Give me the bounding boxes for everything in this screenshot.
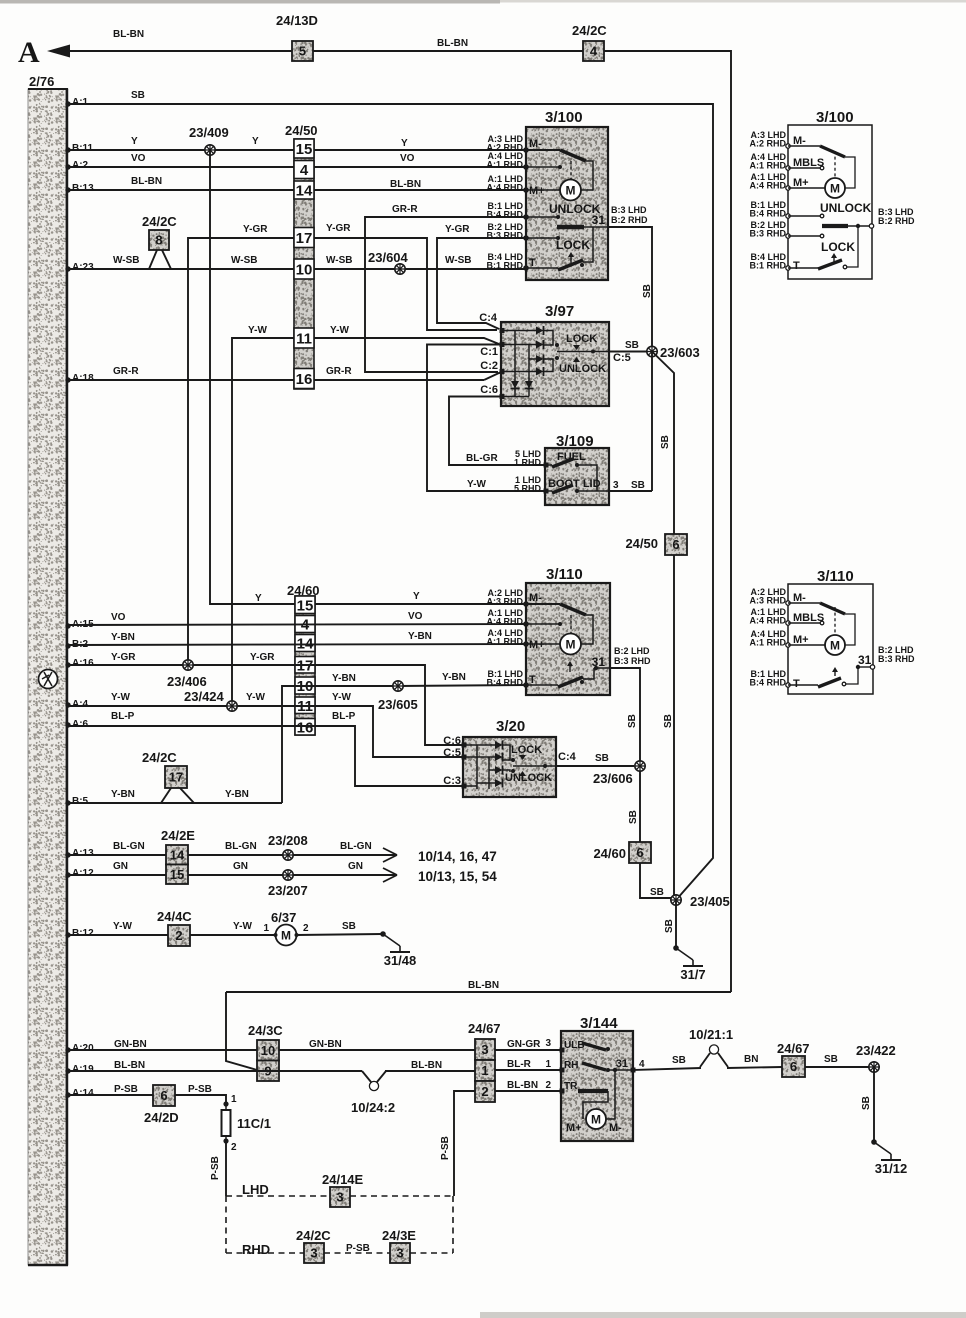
wire SB from 2/76 A:1 along top right side down to splice 23/405 xyxy=(65,101,70,106)
svg-text:SB: SB xyxy=(595,753,609,764)
svg-text:2: 2 xyxy=(481,1084,488,1099)
wire SB from 23/603 diagonal down to 24/50 pin 6 and splice 23/405 xyxy=(652,352,674,901)
svg-text:M+: M+ xyxy=(529,185,545,197)
connector 24/60 pin 16 xyxy=(295,719,315,736)
3/20 diode 3 xyxy=(495,766,503,774)
svg-text:B:5: B:5 xyxy=(72,796,89,807)
svg-text:GR-R: GR-R xyxy=(326,366,352,377)
svg-text:BL-P: BL-P xyxy=(332,711,356,722)
fork wires from 24/2C pin 17 to Y-BN wire xyxy=(161,788,171,803)
wire Y-W from 2/76 A:4 through splice 23/424, 24/60 pin 11 to 3/20 C:5 xyxy=(65,702,70,707)
svg-text:VO: VO xyxy=(408,611,423,622)
svg-text:24/67: 24/67 xyxy=(468,1021,501,1036)
svg-text:A:18: A:18 xyxy=(72,373,94,384)
svg-text:23/422: 23/422 xyxy=(856,1043,896,1058)
svg-text:SB: SB xyxy=(628,810,639,824)
3/144 pin 31/4 output xyxy=(631,1068,636,1073)
svg-text:14: 14 xyxy=(170,847,185,862)
svg-text:A:3 RHD: A:3 RHD xyxy=(749,596,786,606)
svg-text:A:4 RHD: A:4 RHD xyxy=(749,616,786,626)
svg-text:P-SB: P-SB xyxy=(210,1156,221,1180)
svg-text:A:19: A:19 xyxy=(72,1064,94,1075)
svg-text:LHD: LHD xyxy=(242,1182,269,1197)
3/97 diode 6 (down) xyxy=(525,381,533,389)
svg-text:23/605: 23/605 xyxy=(378,697,418,712)
svg-text:C:2: C:2 xyxy=(480,360,498,372)
svg-text:2: 2 xyxy=(303,923,309,934)
svg-text:15: 15 xyxy=(297,597,314,614)
in-line connector 10/24:2 xyxy=(362,1071,371,1082)
svg-text:Y-W: Y-W xyxy=(246,692,265,703)
svg-text:2/76: 2/76 xyxy=(29,74,54,89)
wire W-SB from 2/76 A:23 through 24/50 pin 10 and splice 23/604 to 3/100 T xyxy=(65,266,70,271)
svg-text:24/2C: 24/2C xyxy=(296,1228,331,1243)
svg-text:C:5: C:5 xyxy=(613,352,631,364)
svg-text:SB: SB xyxy=(660,435,671,449)
scan artifact top edge xyxy=(0,0,500,4)
svg-text:24/60: 24/60 xyxy=(593,846,626,861)
arrow to 10/13, 15, 54 xyxy=(383,868,397,882)
svg-text:Y-BN: Y-BN xyxy=(111,632,135,643)
svg-text:BL-GN: BL-GN xyxy=(113,841,145,852)
wire BL-BN from 24/67 pin 2 to 3/144 TR xyxy=(495,1090,561,1092)
connector 24/50 pin 4 xyxy=(294,161,314,179)
connector 24/60 pin 14 xyxy=(295,635,315,652)
wire Y-BN from 2/76 B:5 to 24/60 pin 10 riser xyxy=(65,800,70,805)
wire SB from 3/109 pin 3 to vertical xyxy=(609,490,652,492)
svg-text:10/13, 15, 54: 10/13, 15, 54 xyxy=(418,869,497,884)
svg-text:31: 31 xyxy=(592,655,606,669)
svg-text:6: 6 xyxy=(790,1059,797,1074)
3/144 TR switch bar and motor xyxy=(560,1089,565,1094)
svg-text:3/20: 3/20 xyxy=(496,718,525,735)
svg-text:SB: SB xyxy=(663,714,674,728)
connector 24/50 pin 15 xyxy=(294,139,314,158)
svg-text:3/110: 3/110 xyxy=(546,566,583,583)
svg-text:1: 1 xyxy=(545,1059,551,1070)
connector 24/2E pin 14 xyxy=(166,845,188,865)
svg-text:A:1: A:1 xyxy=(72,97,89,108)
svg-text:VO: VO xyxy=(131,153,146,164)
svg-text:B:4 RHD: B:4 RHD xyxy=(749,678,786,688)
svg-text:SB: SB xyxy=(824,1054,838,1065)
3/97 diode outputs to switch xyxy=(544,331,553,346)
svg-text:SB: SB xyxy=(131,90,145,101)
wire Y-W from 3/97 C:1 to 3/109 pin 1 LHD xyxy=(427,345,545,492)
svg-text:Y: Y xyxy=(401,138,408,149)
wire Y-GR from 3/100 B:2 down to 3/97 C:4 xyxy=(437,238,526,329)
svg-text:B:11: B:11 xyxy=(72,143,94,154)
svg-text:23/604: 23/604 xyxy=(368,250,409,265)
connector 24/50 pin 11 xyxy=(294,328,314,348)
connector 24/50 pin 10 xyxy=(294,259,314,279)
fork wires from 24/2C pin 8 to W-SB wire xyxy=(149,250,157,269)
svg-text:M-: M- xyxy=(529,138,542,150)
svg-text:31: 31 xyxy=(858,653,872,667)
connector 24/50 pin 16 xyxy=(294,369,314,389)
wire Y-GR from 2/76 A:16 through splice 23/406, 24/60 pin 17 to 3/20 C:6 xyxy=(65,662,70,667)
wire SB from 23/422 to ground 31/12 xyxy=(873,1067,875,1142)
svg-text:M+: M+ xyxy=(529,639,545,651)
3/20 diode 2 xyxy=(495,753,503,761)
wire Y-BN from 2/76 B:2 through 24/60 pin 14 to 3/110 M+ xyxy=(65,643,70,648)
svg-text:SB: SB xyxy=(642,284,653,298)
svg-text:M+: M+ xyxy=(566,1122,582,1134)
connector 24/50 pin 17 xyxy=(294,228,314,248)
svg-text:SB: SB xyxy=(342,921,356,932)
svg-text:4: 4 xyxy=(300,162,309,179)
svg-text:2: 2 xyxy=(231,1142,237,1153)
svg-text:16: 16 xyxy=(297,719,314,736)
svg-text:Y-BN: Y-BN xyxy=(111,789,135,800)
svg-text:Y-BN: Y-BN xyxy=(332,673,356,684)
svg-text:3: 3 xyxy=(396,1246,403,1261)
svg-text:4: 4 xyxy=(590,44,598,59)
svg-text:GN: GN xyxy=(348,861,363,872)
svg-text:P-SB: P-SB xyxy=(188,1084,212,1095)
svg-text:24/50: 24/50 xyxy=(285,123,318,138)
svg-text:P-SB: P-SB xyxy=(114,1084,138,1095)
svg-text:3: 3 xyxy=(336,1190,343,1205)
svg-text:Y-W: Y-W xyxy=(332,692,351,703)
svg-text:RHD: RHD xyxy=(242,1242,270,1257)
svg-text:3/110: 3/110 xyxy=(817,568,854,585)
3/144 ULB switch xyxy=(560,1048,565,1053)
svg-text:24/2D: 24/2D xyxy=(144,1110,179,1125)
wire VO from 2/76 A:15 through 24/60 pin 4 to 3/110 MBLS xyxy=(65,623,70,628)
svg-text:3: 3 xyxy=(481,1042,488,1057)
svg-text:5: 5 xyxy=(299,44,306,59)
svg-text:23/603: 23/603 xyxy=(660,345,700,360)
svg-text:SB: SB xyxy=(627,714,638,728)
svg-text:LOCK: LOCK xyxy=(556,238,590,252)
wire SB from 24/67 pin 6 to splice 23/422 xyxy=(805,1066,874,1068)
svg-text:BL-BN: BL-BN xyxy=(114,1060,145,1071)
svg-text:B:12: B:12 xyxy=(72,928,94,939)
svg-text:GN-BN: GN-BN xyxy=(114,1039,147,1050)
svg-text:Y-W: Y-W xyxy=(233,921,252,932)
svg-text:B:2 RHD: B:2 RHD xyxy=(878,216,915,226)
wire Y-W from 2/76 B:12 through 24/4C pin 2 to motor 6/37 xyxy=(65,932,70,937)
svg-text:C:6: C:6 xyxy=(480,384,498,396)
wire SB from 3/100 pin 31 down to splice 23/603 xyxy=(608,227,652,351)
svg-text:SB: SB xyxy=(861,1096,872,1110)
svg-text:LOCK: LOCK xyxy=(511,744,542,756)
svg-text:3/100: 3/100 xyxy=(816,109,854,126)
svg-text:10: 10 xyxy=(296,262,313,279)
3/144 RH switch xyxy=(560,1068,565,1073)
svg-text:24/2C: 24/2C xyxy=(142,214,177,229)
3/20 diode 1 xyxy=(495,741,503,749)
svg-text:M: M xyxy=(830,639,840,653)
ground 31/48 xyxy=(380,931,386,937)
svg-text:M-: M- xyxy=(793,592,806,604)
wire GR-R from 2/76 A:18 through 24/50 pin 16 to 3/97 C:2 xyxy=(65,377,70,382)
svg-text:M: M xyxy=(591,1113,601,1127)
svg-text:Y-GR: Y-GR xyxy=(445,224,470,235)
svg-text:23/606: 23/606 xyxy=(593,771,633,786)
wire SB from 23/405 to ground 31/7 xyxy=(675,900,677,948)
riser from BL-BN run down to 24/3C pin 9 xyxy=(226,992,257,1070)
svg-text:Y-W: Y-W xyxy=(111,692,130,703)
svg-text:SB: SB xyxy=(631,480,645,491)
svg-text:T: T xyxy=(529,674,536,686)
svg-text:15: 15 xyxy=(296,141,313,158)
wire SB from 24/60 pin 6 to splice 23/405 xyxy=(640,863,671,898)
connector 24/60 pin 15 xyxy=(295,596,315,614)
svg-text:M: M xyxy=(281,929,291,943)
svg-text:3: 3 xyxy=(545,1038,551,1049)
svg-text:P-SB: P-SB xyxy=(346,1243,370,1254)
wire SB from 3/97 C:5 to splice 23/603 xyxy=(609,351,647,353)
svg-text:W-SB: W-SB xyxy=(231,255,257,266)
svg-text:15: 15 xyxy=(170,867,184,882)
svg-text:1: 1 xyxy=(263,923,269,934)
svg-text:M: M xyxy=(830,182,840,196)
svg-text:14: 14 xyxy=(296,183,313,200)
3/100 pin 31 row with switch bar xyxy=(557,225,584,230)
wire VO from 2/76 A:2 through 24/50 pin 4 to 3/100 MBLS pin xyxy=(65,164,70,169)
wire Y-W from splice 23/424 up through 24/50 pin 11 to 3/97 C:1 xyxy=(232,338,499,707)
svg-text:LOCK: LOCK xyxy=(821,240,855,254)
svg-text:W-SB: W-SB xyxy=(326,255,352,266)
connector 24/50 pin 14 xyxy=(294,181,314,199)
svg-text:8: 8 xyxy=(155,233,162,248)
svg-text:Y: Y xyxy=(255,593,262,604)
svg-text:31: 31 xyxy=(616,1058,628,1070)
3/97 internal diode bus xyxy=(514,331,516,397)
svg-text:BN: BN xyxy=(744,1054,758,1065)
svg-text:23/406: 23/406 xyxy=(167,674,207,689)
ground 31/12 xyxy=(871,1139,877,1145)
3/97 diode 4 xyxy=(536,368,544,376)
svg-text:A:4: A:4 xyxy=(72,699,89,710)
svg-text:BL-BN: BL-BN xyxy=(468,980,499,991)
connector 24/60 pin 17 xyxy=(295,657,315,674)
svg-text:4: 4 xyxy=(639,1059,645,1070)
svg-text:A:14: A:14 xyxy=(72,1088,94,1099)
ground 31/7 xyxy=(673,945,679,951)
svg-text:2: 2 xyxy=(545,1080,551,1091)
wire BN from 10/21:1 to 24/67 pin 6 xyxy=(727,1067,782,1068)
svg-text:24/2C: 24/2C xyxy=(142,750,177,765)
svg-text:GN: GN xyxy=(233,861,248,872)
svg-text:M-: M- xyxy=(793,135,806,147)
svg-text:LOCK: LOCK xyxy=(566,333,597,345)
svg-text:M-: M- xyxy=(529,592,542,604)
svg-text:M: M xyxy=(566,184,576,198)
svg-text:BL-R: BL-R xyxy=(507,1059,532,1070)
3/20 internal diodes xyxy=(476,745,478,789)
wire Y-GR from splice 23/406 up through 24/50 pin 17 to 3/97 C:4 xyxy=(188,238,497,664)
svg-text:ULB: ULB xyxy=(564,1040,585,1051)
svg-text:M-: M- xyxy=(609,1122,622,1134)
svg-text:W-SB: W-SB xyxy=(113,255,139,266)
svg-text:BL-GN: BL-GN xyxy=(225,841,257,852)
svg-text:23/405: 23/405 xyxy=(690,894,730,909)
svg-text:Y: Y xyxy=(413,591,420,602)
svg-text:B:3 RHD: B:3 RHD xyxy=(486,231,523,241)
wire SB from 23/603 down to 3/109 pin 3 xyxy=(651,352,653,492)
svg-text:T: T xyxy=(529,257,536,269)
3/109 BOOT LID switch xyxy=(544,489,549,494)
svg-text:24/3C: 24/3C xyxy=(248,1023,283,1038)
wire P-SB from 24/67 pin 2 left side down to LHD line xyxy=(454,1091,475,1196)
svg-text:UNLOCK: UNLOCK xyxy=(820,201,872,215)
3/97 diode 3 xyxy=(536,355,544,363)
svg-text:10/21:1: 10/21:1 xyxy=(689,1027,733,1042)
svg-text:C:4: C:4 xyxy=(479,312,498,324)
svg-text:Y-W: Y-W xyxy=(248,325,267,336)
svg-text:VO: VO xyxy=(111,612,126,623)
svg-text:5 RHD: 5 RHD xyxy=(514,484,542,494)
svg-text:B:1 RHD: B:1 RHD xyxy=(749,261,786,271)
svg-text:VO: VO xyxy=(400,153,415,164)
svg-text:GR-R: GR-R xyxy=(113,366,139,377)
svg-text:SB: SB xyxy=(625,340,639,351)
svg-text:MBLS: MBLS xyxy=(793,612,824,624)
svg-text:B:3 RHD: B:3 RHD xyxy=(749,229,786,239)
svg-text:SB: SB xyxy=(672,1055,686,1066)
wire BL-GN from 2/76 A:13 through 24/2E pin 14 and splice 23/208 to 10/14,16,47 xyxy=(65,852,70,857)
svg-text:SB: SB xyxy=(650,887,664,898)
wire SB from 3/144 pin 4 to in-line connector 10/21:1 xyxy=(633,1068,701,1070)
svg-text:A:12: A:12 xyxy=(72,868,94,879)
svg-text:A:23: A:23 xyxy=(72,262,94,273)
wire GR-R from 3/100 B:1 down to 3/97 C:2 xyxy=(365,217,526,372)
svg-text:Y-GR: Y-GR xyxy=(326,223,351,234)
wire BL-BN from 2/76 A:19 through 24/3C pin 9 and 10/24:2 to 24/67 pin 1 xyxy=(65,1068,70,1073)
svg-text:BL-GR: BL-GR xyxy=(466,453,498,464)
wire SB from 6/37 pin 2 to ground 31/48 xyxy=(297,934,384,935)
svg-text:31/48: 31/48 xyxy=(384,953,417,968)
svg-text:GN: GN xyxy=(113,861,128,872)
connector 24/60 pin 11 xyxy=(295,697,315,714)
svg-text:24/13D: 24/13D xyxy=(276,13,318,28)
wire BL-BN long run from 24/3C riser to right-side riser xyxy=(226,991,731,993)
svg-text:M+: M+ xyxy=(793,177,809,189)
svg-text:RH: RH xyxy=(564,1060,578,1071)
svg-text:Y-GR: Y-GR xyxy=(250,652,275,663)
svg-text:6: 6 xyxy=(672,537,679,552)
wire BL-BN right segment turning down the right side xyxy=(604,51,731,992)
svg-text:SB: SB xyxy=(664,919,675,933)
svg-text:17: 17 xyxy=(296,230,313,247)
svg-text:BL-BN: BL-BN xyxy=(131,176,162,187)
wire BL-BN from 2/76 B:13 through 24/50 pin 14 to 3/100 M+ xyxy=(65,187,70,192)
svg-text:Y-BN: Y-BN xyxy=(225,789,249,800)
wire P-SB from fuse down to LHD dashed line xyxy=(225,1141,227,1196)
svg-text:24/67: 24/67 xyxy=(777,1041,810,1056)
svg-text:A:1 RHD: A:1 RHD xyxy=(486,160,523,170)
svg-text:A:20: A:20 xyxy=(72,1043,94,1054)
fuse 11C/1 xyxy=(223,1101,228,1106)
wire BL-P from 2/76 A:6 through 24/60 pin 16 to 3/20 C:3 xyxy=(65,722,70,727)
wire BL-GR from 3/97 C:6 to 3/109 pin 5 LHD xyxy=(449,397,545,466)
svg-text:3/100: 3/100 xyxy=(545,109,583,126)
svg-text:MBLS: MBLS xyxy=(793,157,824,169)
svg-text:GR-R: GR-R xyxy=(392,204,418,215)
svg-text:Y-BN: Y-BN xyxy=(442,672,466,683)
wire SB from 3/20 C:4 to splice 23/606 xyxy=(556,765,634,767)
svg-text:T: T xyxy=(793,678,800,690)
svg-text:24/14E: 24/14E xyxy=(322,1172,364,1187)
svg-text:GN-BN: GN-BN xyxy=(309,1039,342,1050)
svg-text:A:2 RHD: A:2 RHD xyxy=(749,139,786,149)
svg-text:A:1 RHD: A:1 RHD xyxy=(749,161,786,171)
svg-text:B:3 RHD: B:3 RHD xyxy=(614,656,651,666)
svg-text:Y-W: Y-W xyxy=(113,921,132,932)
svg-text:B:13: B:13 xyxy=(72,183,94,194)
svg-text:6: 6 xyxy=(636,845,643,860)
wire GN-GR from 24/67 pin 3 to 3/144 ULB xyxy=(495,1049,561,1051)
svg-text:10/24:2: 10/24:2 xyxy=(351,1100,395,1115)
svg-text:P-SB: P-SB xyxy=(440,1136,451,1160)
svg-text:1: 1 xyxy=(481,1063,488,1078)
svg-text:B:3 RHD: B:3 RHD xyxy=(878,654,915,664)
svg-text:B:3 LHD: B:3 LHD xyxy=(611,205,647,215)
wire GN from 2/76 A:12 through 24/2E pin 15 and splice 23/207 to 10/13,15,54 xyxy=(65,872,70,877)
svg-text:6: 6 xyxy=(160,1088,167,1103)
svg-text:24/3E: 24/3E xyxy=(382,1228,416,1243)
svg-text:24/50: 24/50 xyxy=(625,536,658,551)
svg-text:24/4C: 24/4C xyxy=(157,909,192,924)
3/20 diode 4 xyxy=(495,779,503,787)
svg-text:Y-GR: Y-GR xyxy=(243,224,268,235)
svg-text:UNLOCK: UNLOCK xyxy=(559,363,606,375)
svg-text:GN-GR: GN-GR xyxy=(507,1039,541,1050)
svg-text:BL-BN: BL-BN xyxy=(113,29,144,40)
wire P-SB from 2/76 A:14 through 24/2D pin 6 to fuse 11C/1 xyxy=(65,1092,70,1097)
svg-text:24/2C: 24/2C xyxy=(572,23,607,38)
svg-text:BL-GN: BL-GN xyxy=(340,841,372,852)
svg-text:3: 3 xyxy=(613,480,619,491)
svg-text:10/14, 16, 47: 10/14, 16, 47 xyxy=(418,849,497,864)
svg-text:23/208: 23/208 xyxy=(268,833,308,848)
svg-text:BL-BN: BL-BN xyxy=(437,38,468,49)
svg-text:C:1: C:1 xyxy=(480,346,498,358)
svg-text:A:16: A:16 xyxy=(72,658,94,669)
svg-text:A:4 RHD: A:4 RHD xyxy=(749,181,786,191)
wire BL-BN from arrow A to connector 24/13D xyxy=(68,50,292,52)
svg-text:23/207: 23/207 xyxy=(268,883,308,898)
svg-text:BOOT LID: BOOT LID xyxy=(548,478,601,490)
svg-text:Y-BN: Y-BN xyxy=(408,631,432,642)
svg-text:Y: Y xyxy=(252,136,259,147)
svg-text:TR: TR xyxy=(564,1081,578,1092)
svg-text:3/97: 3/97 xyxy=(545,303,574,320)
svg-text:T: T xyxy=(793,260,800,272)
wire Y from 2/76 B:11 through splice 23/409 and 24/50 pin 15 to 3/100 M- xyxy=(65,147,70,152)
svg-text:11C/1: 11C/1 xyxy=(237,1116,271,1131)
svg-text:B:1 RHD: B:1 RHD xyxy=(486,261,523,271)
svg-text:23/409: 23/409 xyxy=(189,125,229,140)
svg-text:2: 2 xyxy=(175,928,182,943)
inset 3/100 31 row out xyxy=(822,224,848,228)
wire Y-BN from 2/76 B:5 up through 24/60 pin 10, splice 23/605 to 3/110 T xyxy=(282,686,398,803)
svg-text:BL-BN: BL-BN xyxy=(411,1060,442,1071)
3/97 diode 2 xyxy=(536,341,544,349)
wire Y branch from 23/409 down to 24/60 pin 15 and 3/110 M- xyxy=(210,150,526,604)
svg-text:UNLOCK: UNLOCK xyxy=(505,772,552,784)
wire GN-BN from 2/76 A:20 through 24/3C pin 10 to 24/67 pin 3 xyxy=(65,1047,70,1052)
arrow to 10/14, 16, 47 xyxy=(383,848,397,862)
svg-text:A: A xyxy=(18,36,40,69)
svg-text:BL-BN: BL-BN xyxy=(507,1080,538,1091)
svg-text:24/2E: 24/2E xyxy=(161,828,195,843)
svg-text:17: 17 xyxy=(169,770,183,785)
svg-text:3: 3 xyxy=(310,1246,317,1261)
